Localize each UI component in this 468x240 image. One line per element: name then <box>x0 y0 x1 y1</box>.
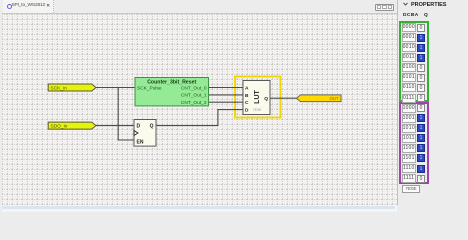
tab bar <box>0 0 468 13</box>
truth table row 0011 <box>402 53 417 62</box>
svg-text:CNT_Out_0: CNT_Out_0 <box>181 85 207 91</box>
scrollbar thumb <box>2 206 395 209</box>
LUT block U1 <box>243 81 270 115</box>
truth table row 1011 <box>402 134 417 143</box>
truth table row 0101 <box>402 73 417 82</box>
truth table group 0xxx (green) <box>399 21 429 102</box>
active tab <box>3 0 54 13</box>
truth table row 1000 <box>402 104 417 113</box>
output port OUT <box>297 95 342 102</box>
truth table row 0000 <box>402 23 417 32</box>
truth table row 0010 <box>402 43 417 52</box>
truth table row 1110 <box>402 164 417 173</box>
wire CNT_Out_1 to LUT B <box>209 94 244 96</box>
svg-text:CNT_Out_2: CNT_Out_2 <box>181 100 207 106</box>
svg-text:CNT_Out_1: CNT_Out_1 <box>181 93 207 99</box>
svg-text:Q: Q <box>150 124 154 130</box>
D flip-flop U2 <box>134 120 156 147</box>
schematic canvas with grid <box>2 13 397 206</box>
truth table row 1010 <box>402 124 417 133</box>
truth table header DCBA Q <box>403 13 428 18</box>
svg-text:D: D <box>137 124 141 130</box>
truth table row 1101 <box>402 154 417 163</box>
wire CNT_Out_2 to LUT C <box>209 101 244 103</box>
truth table row 1001 <box>402 114 417 123</box>
dotted grid background <box>2 14 397 206</box>
svg-text:C: C <box>245 100 249 106</box>
truth table row 0100 <box>402 63 417 72</box>
wire DFF Q to LUT D <box>156 110 243 126</box>
truth table row 0001 <box>402 33 417 42</box>
bottom scrollbar <box>2 205 397 212</box>
tab close button <box>46 3 50 9</box>
truth table row 0110 <box>402 83 417 92</box>
counter block Counter_3bit_Reset <box>135 78 209 107</box>
svg-text:OUT: OUT <box>330 96 339 101</box>
svg-text:SCK_Pulse: SCK_Pulse <box>137 85 162 91</box>
svg-text:7E0E: 7E0E <box>253 108 262 112</box>
truth table group 1xxx (purple) <box>399 102 429 184</box>
svg-text:Counter_3bit_Reset: Counter_3bit_Reset <box>147 80 196 86</box>
truth table row 1100 <box>402 144 417 153</box>
wire CNT_Out_0 to LUT A <box>209 87 244 89</box>
svg-text:D: D <box>245 108 249 114</box>
wire SCK_in to counter <box>96 87 135 89</box>
truth table row 0111 <box>402 94 417 103</box>
svg-text:A: A <box>245 85 249 91</box>
svg-text:EN: EN <box>137 140 144 146</box>
PROPERTIES header <box>403 2 446 8</box>
svg-text:Q: Q <box>264 96 268 102</box>
svg-text:LUT: LUT <box>254 89 261 103</box>
svg-text:SCK_in: SCK_in <box>51 85 68 91</box>
svg-text:SDO_in: SDO_in <box>51 123 68 129</box>
wire LUT Q to OUT port <box>270 97 297 99</box>
panel divider <box>397 0 398 205</box>
selection highlight around LUT <box>235 77 281 118</box>
truth table row 1111 <box>402 174 417 183</box>
LUT hex value label 7E0E <box>402 185 420 193</box>
input port SCK_in <box>48 84 96 91</box>
input port SDO_in <box>48 122 96 129</box>
svg-text:B: B <box>245 93 249 99</box>
wire branch SCK down to DFF EN <box>118 88 134 141</box>
tab title SPI_to_WS2812 <box>12 3 46 8</box>
mini toolbar <box>375 4 394 11</box>
wire SDO_in to DFF D <box>96 125 134 127</box>
tab icon <box>7 4 12 9</box>
